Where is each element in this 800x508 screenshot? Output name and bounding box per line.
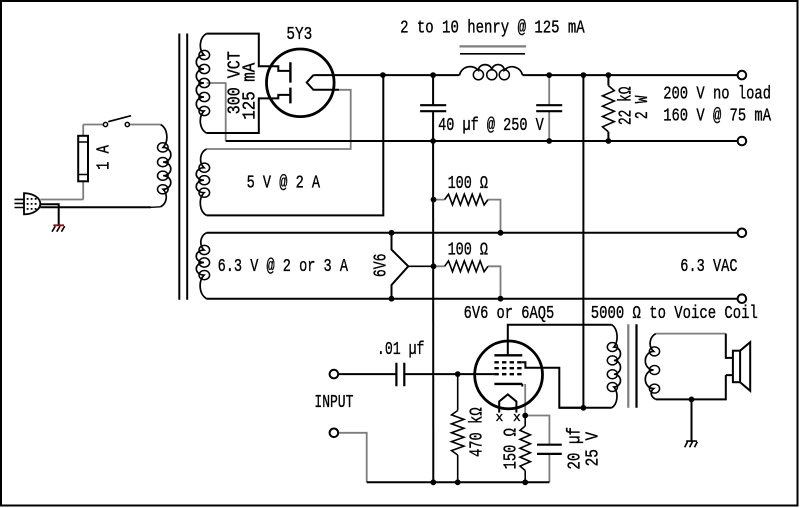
svg-text:.01 µf: .01 µf bbox=[377, 340, 425, 360]
svg-text:5 V @ 2 A: 5 V @ 2 A bbox=[247, 174, 321, 194]
svg-text:100 Ω: 100 Ω bbox=[448, 174, 489, 194]
svg-text:6V6: 6V6 bbox=[372, 254, 392, 278]
svg-text:2 to 10 henry @ 125 mA: 2 to 10 henry @ 125 mA bbox=[400, 18, 585, 38]
svg-text:2 W: 2 W bbox=[633, 95, 653, 119]
svg-text:6.3 V @ 2 or 3 A: 6.3 V @ 2 or 3 A bbox=[218, 257, 349, 277]
svg-text:x: x bbox=[513, 410, 521, 425]
svg-text:1 A: 1 A bbox=[95, 145, 115, 170]
svg-text:125 mA: 125 mA bbox=[240, 63, 260, 120]
svg-text:6V6 or 6AQ5: 6V6 or 6AQ5 bbox=[464, 304, 555, 324]
svg-text:470 kΩ: 470 kΩ bbox=[467, 407, 487, 457]
svg-text:100 Ω: 100 Ω bbox=[448, 240, 489, 260]
svg-text:25 V: 25 V bbox=[584, 432, 604, 467]
svg-text:6.3 VAC: 6.3 VAC bbox=[680, 257, 737, 277]
svg-text:40 µf @ 250 V: 40 µf @ 250 V bbox=[438, 116, 544, 136]
svg-text:150 Ω: 150 Ω bbox=[502, 428, 522, 469]
svg-text:5000 Ω to Voice Coil: 5000 Ω to Voice Coil bbox=[591, 304, 758, 324]
svg-text:INPUT: INPUT bbox=[314, 393, 353, 413]
svg-text:20 µf: 20 µf bbox=[565, 427, 585, 470]
svg-text:x: x bbox=[496, 410, 504, 425]
svg-text:160 V @ 75 mA: 160 V @ 75 mA bbox=[663, 107, 771, 127]
svg-text:200 V no load: 200 V no load bbox=[663, 84, 771, 104]
svg-text:5Y3: 5Y3 bbox=[286, 25, 312, 45]
